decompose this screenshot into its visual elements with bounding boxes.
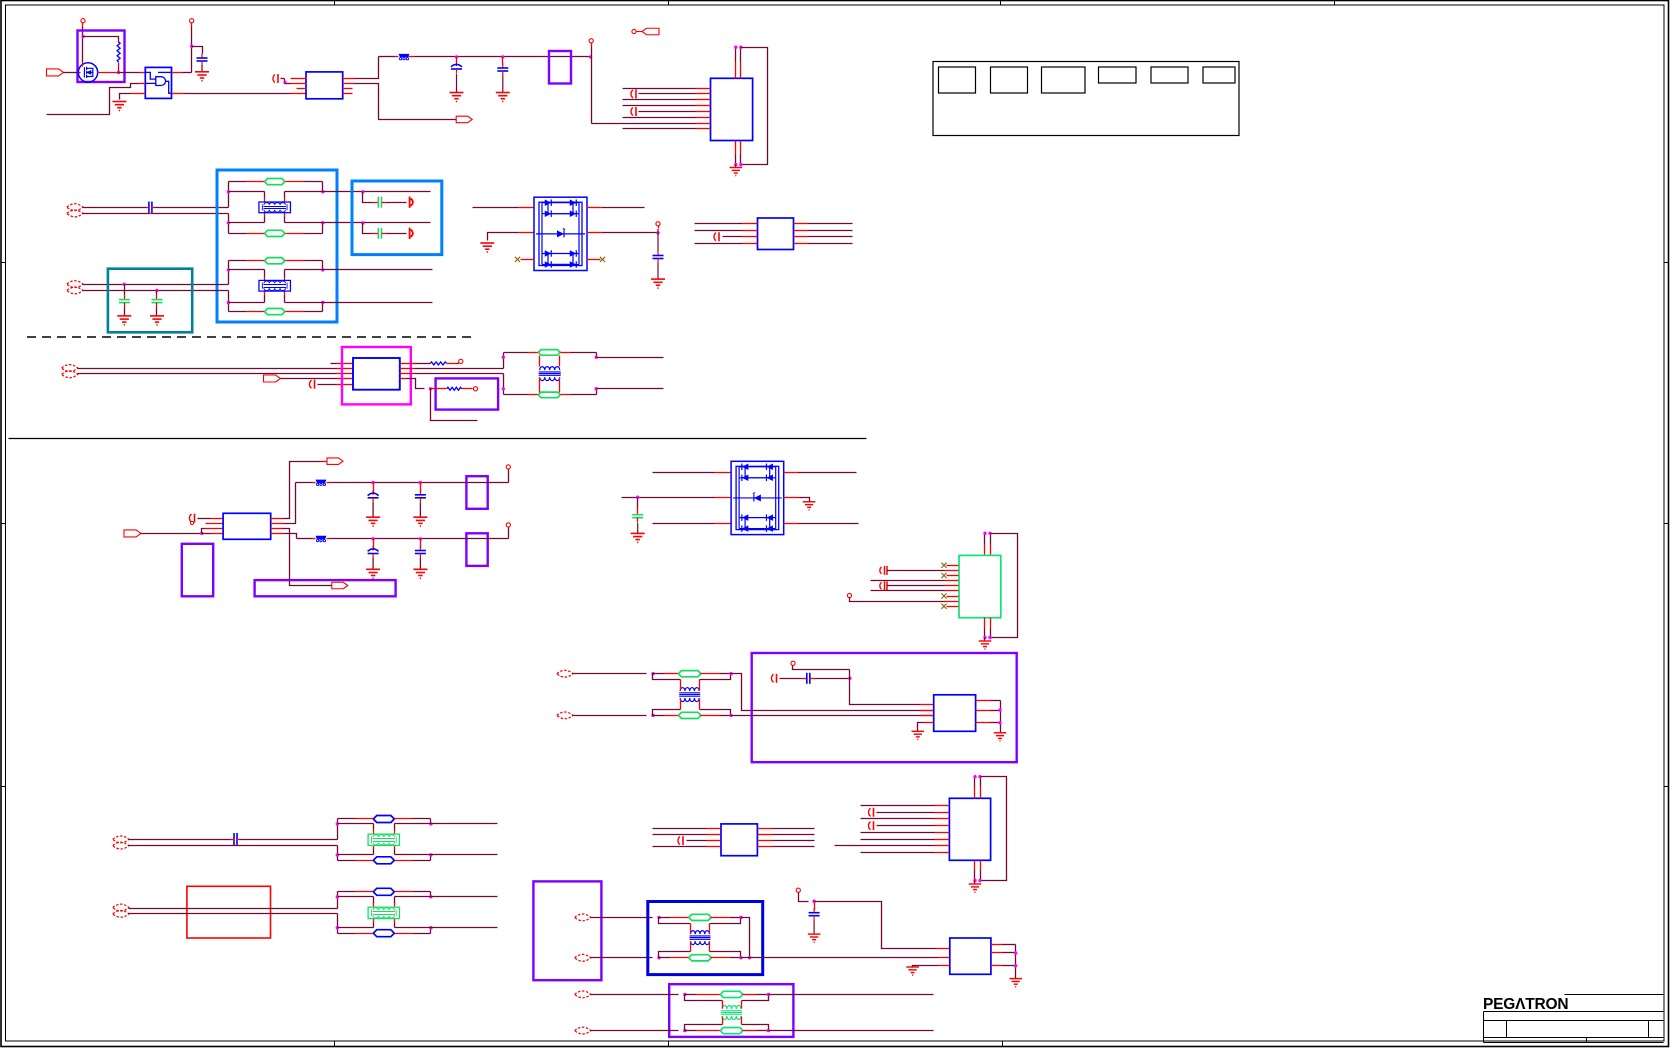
ground xyxy=(413,517,427,526)
wire U6 left pin1 xyxy=(695,223,743,225)
no-connect X U10 pin1 xyxy=(941,563,946,568)
wire channel mid rail 1 left xyxy=(338,823,374,825)
wire U5 bottom pins xyxy=(735,141,737,155)
wire rail 2 xyxy=(331,538,467,540)
junction ch tl xyxy=(227,268,230,271)
capacitor C11 series xyxy=(801,678,807,680)
wire U13 left pin2 xyxy=(653,834,707,836)
ground GND13 xyxy=(912,731,925,739)
wire coil step right bottom xyxy=(710,952,741,958)
frame zone tick right 1 xyxy=(1664,262,1669,264)
junction C13 xyxy=(812,900,815,903)
wire coil step right top xyxy=(700,674,731,680)
wire xfmr top rail right xyxy=(561,352,571,354)
wire coil step left top xyxy=(653,674,681,680)
capacitor C13 xyxy=(814,902,816,911)
wire J4- xyxy=(129,845,338,847)
resistor channel bottom xyxy=(374,857,394,864)
junction C11 xyxy=(848,677,851,680)
wire U7 right pin2 long xyxy=(400,368,415,370)
connector J2 xyxy=(62,365,78,372)
junction node B xyxy=(117,71,120,74)
wire U6 right pin1 xyxy=(794,223,809,225)
common-mode choke T xyxy=(259,202,291,213)
ground xyxy=(413,569,427,578)
wire top rail xyxy=(379,56,395,58)
wire tvs1 mid in xyxy=(488,233,519,241)
wire rail into module xyxy=(467,538,488,540)
wire U5 pin6 xyxy=(623,117,696,119)
resistor R2 xyxy=(430,362,446,365)
wire channel mid rail 2 left xyxy=(229,222,265,224)
wire C11 to junction xyxy=(816,678,850,680)
junction U10 bottom xyxy=(983,636,986,639)
wire U6 right pin2 xyxy=(794,230,809,232)
junction ch bl xyxy=(227,221,230,224)
wire U13 right pin4 xyxy=(758,846,773,848)
inductor bottom (series) xyxy=(685,1030,696,1032)
title block bottom row divider xyxy=(1586,1038,1588,1043)
wire U12 pin2 stub xyxy=(921,710,934,712)
wire U5 pin1 xyxy=(623,88,696,90)
junction node A xyxy=(81,35,84,38)
hierarchy box cap filter (teal) xyxy=(108,269,192,333)
wire U15 pin1 stub xyxy=(937,948,950,950)
wire U3 pin2 xyxy=(285,83,291,85)
junction ch br xyxy=(429,853,432,856)
wire coil step left top xyxy=(685,995,723,1001)
capacitor C2 (polarized) xyxy=(456,57,458,63)
junction term 2 xyxy=(361,221,364,224)
wire U14 bottom pins xyxy=(974,861,976,871)
transformer coils xyxy=(680,688,699,692)
junction rail c1 xyxy=(371,537,374,540)
power pin xyxy=(506,523,510,527)
module box U4 (purple) xyxy=(549,51,571,84)
wire U5 pin3 xyxy=(623,99,696,101)
wire coil step right bottom xyxy=(742,1025,769,1031)
wire tvs1 bottom stub right xyxy=(587,259,601,261)
junction ch bl xyxy=(227,301,230,304)
wire channel right vertical bottom xyxy=(430,928,432,934)
power pin xyxy=(506,465,510,469)
wire U12 right vertical xyxy=(1000,701,1002,733)
inductor L2 (green) xyxy=(539,392,560,398)
wire T2 out top xyxy=(731,674,753,711)
resistor channel top xyxy=(374,888,394,895)
module box U7 (magenta) xyxy=(342,347,411,404)
wire U10 pin7 red stub xyxy=(947,596,959,598)
frame zone tick left 3 xyxy=(1,786,6,788)
wire U15 pin2 stub xyxy=(939,957,950,959)
ground xyxy=(366,569,380,578)
wire tvs2 mid out xyxy=(784,497,799,499)
wire jog to U8 pin3 xyxy=(202,529,205,534)
wire cap1 down xyxy=(124,285,126,295)
wire choke pin br xyxy=(394,919,396,923)
title block bottom line xyxy=(1484,1042,1664,1044)
wire choke pin br xyxy=(284,213,286,217)
ic U10 box (green) xyxy=(959,555,1001,617)
wire U6 left pin2 xyxy=(695,230,743,232)
ferrite bead FB1 xyxy=(399,54,410,57)
module box (purple) xyxy=(466,476,487,509)
ground GND3 xyxy=(450,93,464,102)
wire rail to power pin xyxy=(488,482,509,484)
resistor channel top xyxy=(265,179,285,185)
capacitor C12 series xyxy=(233,833,235,846)
wire power rail down xyxy=(191,27,193,73)
wire coil step left bottom xyxy=(653,710,681,716)
wire rail into module xyxy=(467,482,488,484)
junction U5 bottom xyxy=(734,163,737,166)
wire U10 pin8 xyxy=(850,598,945,602)
title block vertical divider 1 xyxy=(1506,1021,1508,1038)
wire tvs2 top in xyxy=(653,472,715,474)
title block line 2 xyxy=(1484,1020,1664,1022)
wire U3 pin3 red stub xyxy=(297,88,307,90)
wire U3 pin1 xyxy=(281,78,285,80)
pin decoration U10 pin5 xyxy=(880,582,882,589)
terminal pin P7 xyxy=(847,593,851,597)
wire coil step right top xyxy=(710,918,741,924)
capacitor rail c2 xyxy=(420,539,422,549)
capacitor C7 (green) series xyxy=(373,202,379,204)
no-connect X U10 pin3 xyxy=(941,573,946,578)
wire U8 right pin3 down to tag xyxy=(271,528,283,530)
wire C11 to U12 xyxy=(850,670,921,705)
wire xfmr right vertical bottom xyxy=(596,389,598,395)
wire U8 right pin4 to rail B xyxy=(271,533,285,535)
revision table cell 6 xyxy=(1203,67,1235,83)
wire U10 pin4 xyxy=(871,580,945,582)
wire choke pin br xyxy=(284,292,286,296)
wire choke pin bl xyxy=(373,846,375,850)
wire U7 right pin3 long xyxy=(400,373,415,375)
wire U10 pin6 xyxy=(871,590,945,592)
revision table cell 5 xyxy=(1151,67,1188,83)
output tag OUT3 xyxy=(327,458,343,465)
connector J7+ xyxy=(575,991,591,998)
wire J4+ to cap xyxy=(129,839,231,841)
wire xfmr right vertical top xyxy=(596,353,598,358)
wire U12 right pins xyxy=(976,700,991,702)
junction term 1 xyxy=(361,190,364,193)
wire coil step left bottom xyxy=(685,1025,723,1031)
junction ch tl xyxy=(336,895,339,898)
common-mode choke T xyxy=(259,280,291,291)
wire J3+ xyxy=(573,673,647,675)
connector J3- xyxy=(557,712,573,719)
no-connect X U10 pin7 xyxy=(941,593,946,598)
wire coil step left top xyxy=(659,918,691,924)
wire choke pin tl xyxy=(264,192,266,198)
ground GND15 xyxy=(974,881,976,885)
junction U5 top xyxy=(734,46,737,49)
wire T3 out bottom xyxy=(741,957,939,959)
wire xfmr out bottom xyxy=(597,388,664,390)
wire tvs2 top out xyxy=(784,472,799,474)
inductor top (series) xyxy=(685,994,696,996)
ground GND18 xyxy=(1009,979,1022,987)
resistor R3 xyxy=(447,387,462,390)
junction rail c2 xyxy=(419,481,422,484)
pin decoration U13 pin3 xyxy=(678,837,680,845)
resistor channel top xyxy=(265,258,285,264)
wire channel left vertical bottom xyxy=(337,914,339,934)
junction rail c2 xyxy=(419,537,422,540)
inductor L1 (green) xyxy=(539,350,560,356)
power pin P3 xyxy=(589,39,593,43)
output tag MID1 xyxy=(264,375,281,382)
junction ch bl xyxy=(336,853,339,856)
junction U3 pin2 node xyxy=(283,81,286,84)
wire U13 left pin4 xyxy=(653,846,707,848)
junction ch tr xyxy=(429,822,432,825)
wire U12 gnd pin xyxy=(925,722,934,724)
wire choke pin br xyxy=(394,846,396,850)
ground GND5 xyxy=(735,165,737,168)
wire choke pin bl xyxy=(264,292,266,296)
frame zone tick top 4 xyxy=(1334,1,1336,5)
ic U7 inner box xyxy=(353,358,400,390)
wire U15 right pins xyxy=(991,944,1003,946)
wire U14 pin1 xyxy=(861,805,935,807)
connector J6- xyxy=(575,954,591,961)
junction ch br xyxy=(321,221,324,224)
hierarchy box termination (blue) xyxy=(352,181,442,255)
wire channel left vertical top xyxy=(337,819,339,840)
wire xfmr top rail xyxy=(504,352,529,354)
wire U12 pin3 stub xyxy=(921,715,934,717)
wire tvs1 top in xyxy=(473,207,519,209)
wire channel right vertical bottom xyxy=(322,223,324,234)
resistor channel bottom xyxy=(265,309,285,315)
wire coil step left bottom xyxy=(659,952,691,958)
junction ch tr xyxy=(429,895,432,898)
wire rail down right side xyxy=(591,57,593,124)
wire T1 left pins xyxy=(539,356,541,367)
wire channel right vertical bottom xyxy=(430,855,432,861)
wire U14 pin7 xyxy=(835,845,935,847)
module box U9 (purple) xyxy=(182,544,213,597)
capacitor rail c1 (polarized) xyxy=(373,539,375,549)
wire U14 top pins xyxy=(974,787,976,799)
wire xfmr bottom rail right xyxy=(561,394,571,396)
wire U10 loop xyxy=(991,534,1018,638)
wire J1 B- xyxy=(83,290,229,292)
wire U13 left pin3 xyxy=(687,840,707,842)
wire U10 pin5 xyxy=(887,585,945,587)
wire U3 right pin3 stub xyxy=(343,88,353,90)
module box (purple) xyxy=(466,533,487,566)
frame zone tick bottom 2 xyxy=(668,1041,670,1047)
wire channel mid rail 1 left xyxy=(229,191,265,193)
ic U3 box xyxy=(306,72,343,99)
wire vcc into mosfet drain xyxy=(82,63,84,67)
junction rail cap2 xyxy=(501,55,504,58)
wire U6 right pin3 xyxy=(794,236,809,238)
wire branch to capacitor C1 xyxy=(192,47,203,54)
junction node C xyxy=(190,45,193,48)
revision table outer box xyxy=(933,62,1239,136)
output tag TOP1 xyxy=(456,116,472,123)
junction T2 in top xyxy=(651,672,654,675)
wire J1 A- xyxy=(83,213,149,215)
wire U14 loop xyxy=(981,777,1007,881)
wire tvs1 top out xyxy=(587,207,603,209)
wire channel mid rail 2 left xyxy=(338,927,374,929)
junction T2 out bottom xyxy=(729,714,732,717)
wire U6 left pin4 xyxy=(695,243,743,245)
wire up to xfmr top rail xyxy=(503,353,505,369)
wire U3 pin1 red stub xyxy=(291,78,307,80)
wire top to resistor xyxy=(83,37,119,43)
junction T3 in bottom xyxy=(657,956,660,959)
title block left vertical xyxy=(1483,1012,1485,1043)
wire tag to U7 pin4 xyxy=(281,378,337,380)
wire gate top output to power rail xyxy=(172,72,183,74)
frame zone tick top 3 xyxy=(1000,1,1002,5)
wire U15 gnd pin xyxy=(939,965,950,967)
ground GND4 xyxy=(496,93,510,102)
wire vcc to mosfet box xyxy=(82,27,84,63)
wire J2+ to U7 xyxy=(78,368,337,370)
capacitor C4 series xyxy=(148,202,150,215)
section separator dashed line xyxy=(27,336,477,338)
wire U14 pin5 xyxy=(861,832,935,834)
connector J1 pair A xyxy=(67,204,83,211)
frame zone tick left 1 xyxy=(1,262,6,264)
pin decoration U7 pin5 xyxy=(309,380,311,388)
wire long input to gate pin2 xyxy=(47,84,139,115)
junction tvs2 cap xyxy=(636,496,639,499)
wire channel mid rail 2 right / out xyxy=(395,854,498,856)
wire channel mid rail 2 right / out xyxy=(395,927,498,929)
wire channel bottom rail xyxy=(338,860,356,862)
wire U6 left pin3 xyxy=(714,233,716,241)
wire channel left vertical top xyxy=(228,182,230,208)
wire U5 pin2 xyxy=(631,90,633,98)
wire J6- xyxy=(591,957,653,959)
title block line under logo xyxy=(1484,1011,1664,1013)
wire J1 A+ to cap xyxy=(83,207,147,209)
revision table cell 2 xyxy=(991,67,1028,93)
wire node B to gate U2 input xyxy=(119,72,139,74)
wire choke pin bl xyxy=(264,213,266,217)
wire U7 pin5 xyxy=(318,384,337,386)
wire channel left vertical top xyxy=(337,892,339,909)
wire channel top rail xyxy=(229,181,247,183)
wire rail to U5 pin7 xyxy=(592,123,696,125)
wire U5 pin8 xyxy=(623,128,696,130)
wire channel right vertical top xyxy=(430,819,432,824)
wire J5- xyxy=(129,913,338,915)
junction ch tl xyxy=(336,822,339,825)
wire choke pin tl xyxy=(373,897,375,903)
ic U12 box xyxy=(934,695,976,732)
wire U10 bottom pins xyxy=(984,618,986,629)
wire into R3 xyxy=(431,388,447,390)
junction T4 in xyxy=(683,993,686,996)
ground GND12 xyxy=(984,638,986,641)
wire U8 pin4 xyxy=(202,533,211,535)
common-mode choke T xyxy=(368,834,399,845)
junction teal cap2 xyxy=(155,289,158,292)
capacitor C9 xyxy=(657,233,659,251)
wire U8 pin2 xyxy=(206,523,224,525)
wire top rail 2 xyxy=(409,56,415,58)
wire choke pin tl xyxy=(373,824,375,830)
power pin P4 xyxy=(656,222,660,226)
wire U13 right pin2 xyxy=(758,834,773,836)
wire J7+ xyxy=(591,994,679,996)
wire U5 loop xyxy=(741,48,768,165)
wire term 2 branch xyxy=(363,223,373,234)
capacitor rail c1 (polarized) xyxy=(373,483,375,493)
ground GND14 xyxy=(994,733,1007,741)
wire channel top rail xyxy=(229,260,247,262)
wire term 2 to diode xyxy=(387,233,407,235)
wire U8 right pin2 to rail A xyxy=(271,523,285,525)
ic U14 box xyxy=(949,798,990,860)
revision table cell 4 xyxy=(1099,67,1137,83)
capacitor C8 (green) series xyxy=(373,233,379,235)
wire channel right vertical bottom xyxy=(322,303,324,312)
wire cap down xyxy=(637,498,639,509)
power pin P9 xyxy=(796,888,800,892)
wire tag to mosfet xyxy=(64,72,79,74)
wire power pin down to rail xyxy=(591,47,593,57)
ground GND2 xyxy=(195,72,209,81)
power pin VCC P1 xyxy=(81,19,85,23)
ground GND1 xyxy=(112,102,126,111)
inductor top (series) xyxy=(653,673,665,675)
wire choke pin bl xyxy=(373,919,375,923)
wire T3 out top xyxy=(741,918,750,958)
module box OUT4 (purple) xyxy=(255,580,396,596)
wire U13 right pin3 xyxy=(758,840,773,842)
wire U14 pin6 xyxy=(861,839,935,841)
capacitor C6 (green) xyxy=(156,295,158,300)
wire stub below R3 box xyxy=(431,389,478,421)
frame zone tick bottom 3 xyxy=(1002,1041,1004,1047)
wire J4+ cont xyxy=(241,839,338,841)
diode D1 (red cap mark) xyxy=(409,197,411,208)
transistor Q1 mosfet xyxy=(78,63,97,82)
connector J6+ xyxy=(575,914,591,921)
pin decoration U8 pin1 xyxy=(190,514,192,522)
mosfet enclosure box U1 xyxy=(78,31,125,83)
wire U14 pin3 xyxy=(861,818,935,820)
junction ch tl xyxy=(227,190,230,193)
wire choke pin tr xyxy=(284,192,286,198)
ground GND6 xyxy=(124,308,126,316)
wire U10 pin3 red stub xyxy=(947,575,959,577)
wire U10 top pins xyxy=(984,545,986,555)
no-connect X U10 pin9 xyxy=(941,604,946,609)
wire channel right vertical top xyxy=(322,182,324,192)
wire rail 2 xyxy=(331,482,467,484)
common-mode choke T xyxy=(368,907,399,918)
wire choke pin tr xyxy=(394,897,396,903)
ferrite bead FB xyxy=(313,538,316,540)
wire choke pin tl xyxy=(264,270,266,277)
title block vertical divider 2 xyxy=(1648,1021,1650,1038)
ic U6 box xyxy=(758,218,794,250)
wire channel right vertical top xyxy=(322,261,324,270)
wire channel mid rail 1 left xyxy=(229,269,265,271)
